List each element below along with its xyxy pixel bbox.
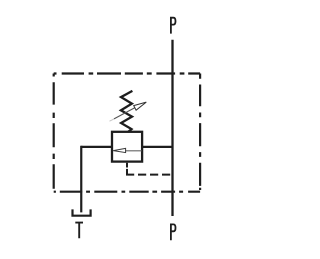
label P (top port) xyxy=(171,18,176,34)
tank symbol (open reservoir) xyxy=(73,209,91,215)
label P (bottom port) xyxy=(171,224,176,240)
wire: P pressure line (vertical) xyxy=(171,40,173,216)
spring adjustment arrow head (open) xyxy=(134,102,147,110)
pilot line (dashed) horizontal segment xyxy=(126,174,173,176)
spring adjustment arrow (diagonal) shaft xyxy=(110,119,115,121)
wire: tank drop line (vertical) xyxy=(80,146,82,213)
enclosure boundary (dash-dot box) right edge xyxy=(199,74,201,192)
pilot line (dashed) vertical segment xyxy=(126,163,128,175)
valve flow path arrow shaft (closed position) xyxy=(125,150,141,152)
enclosure boundary (dash-dot box) left edge xyxy=(53,74,55,192)
valve flow path arrow head (open, points left) xyxy=(113,148,125,152)
enclosure boundary (dash-dot box) bottom edge xyxy=(54,191,200,193)
label T (tank) xyxy=(75,223,83,239)
wire: valve inlet port to P line xyxy=(142,146,173,148)
relief valve envelope (square) xyxy=(112,132,142,162)
enclosure boundary (dash-dot box) top edge xyxy=(54,72,200,74)
wire: valve outlet port (horizontal) xyxy=(81,146,112,148)
spring (zigzag) xyxy=(121,91,132,132)
